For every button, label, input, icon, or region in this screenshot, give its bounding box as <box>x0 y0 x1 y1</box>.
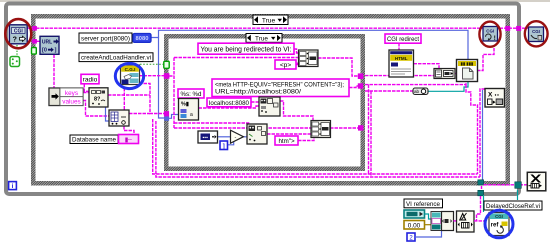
tunnel pink on case2 right y127 <box>358 125 363 130</box>
red circle around CGI release <box>525 21 548 46</box>
wire pink bus y128 left <box>174 127 311 129</box>
Database name label <box>70 135 118 144</box>
htm quote label <box>275 136 298 145</box>
unbundle by name node <box>49 88 83 106</box>
wire pink values out <box>83 101 109 117</box>
wire teal vi ref to open node <box>425 214 432 219</box>
tunnel pink on case2 left y113 <box>164 111 169 116</box>
wire pink keys out <box>83 92 89 94</box>
wire blue 2 const to open node <box>415 231 442 238</box>
case2 selector label <box>246 34 282 43</box>
radio label <box>81 74 99 84</box>
wire pink CGI to URL <box>27 40 40 42</box>
svg-text:server port(8080): server port(8080) <box>81 36 130 43</box>
svg-text:C.G.I: C.G.I <box>125 67 136 72</box>
tunnel teal on case1 bottom <box>478 180 484 185</box>
svg-text:%▮: %▮ <box>181 102 189 108</box>
wire pink left bypass vertical 2 <box>156 121 480 177</box>
numeric constant 8080 <box>133 34 151 43</box>
loop iteration terminal <box>9 182 17 191</box>
case1 selector label <box>253 15 288 25</box>
svg-text:keys: keys <box>65 90 78 97</box>
VI reference label <box>404 199 443 208</box>
wire pink tunnel90 east to abc node <box>365 90 413 92</box>
svg-text:!: ! <box>494 36 496 42</box>
case structure 2 right border <box>361 34 366 171</box>
build path node <box>434 69 455 79</box>
tunnel pink on case2 right y86 <box>358 83 363 88</box>
svg-text:True: True <box>255 35 268 42</box>
svg-text:<p>: <p> <box>280 62 292 69</box>
tunnel pink on case1 left y28 <box>32 26 37 31</box>
svg-text:htm">: htm"> <box>278 138 295 145</box>
wire blue brace const to triangle <box>227 141 234 145</box>
wire pink db right out <box>129 113 150 115</box>
wire pink meta out to tunnel <box>349 86 361 88</box>
tunnel pink on case1 left y41 <box>32 39 37 44</box>
wire teal abc out to write icon bottom <box>428 82 468 92</box>
comparison triangle node <box>231 130 244 143</box>
wire green error to case2 tunnel <box>140 63 164 65</box>
wire pink html icon out to buildpath node <box>414 64 440 69</box>
while loop border <box>6 4 519 195</box>
wire pink localhost label to iconA <box>251 101 259 103</box>
svg-text:URL: URL <box>42 40 52 46</box>
string subvi icon B <box>247 124 267 144</box>
createAndLoadHandler label <box>79 53 153 62</box>
wait ms node <box>457 211 475 232</box>
case structure 1 top border <box>31 14 510 19</box>
tunnel pink on case2 right y76 <box>358 73 364 79</box>
svg-text:URL=http://localhost:8080/: URL=http://localhost:8080/ <box>215 89 301 96</box>
string to path node <box>413 88 428 95</box>
wire pink wait to delayed close <box>474 220 485 222</box>
open vi reference node <box>442 212 454 231</box>
DelayedCloseRef vi icon <box>489 213 509 236</box>
svg-text:CGI: CGI <box>486 29 494 34</box>
wire pink bus y123 to iconB <box>174 123 249 124</box>
case structure 2 left border <box>164 34 169 171</box>
wire blue into format node <box>169 115 179 119</box>
DelayedCloseRef label <box>484 201 542 210</box>
blue brace constant <box>220 141 228 150</box>
localhost 8080 label <box>207 98 251 107</box>
svg-text:▮▮ ▮▮▮: ▮▮ ▮▮▮ <box>461 61 474 66</box>
svg-text:DelayedCloseRef.vi: DelayedCloseRef.vi <box>486 203 540 210</box>
tunnel teal on loop bottom <box>478 190 484 196</box>
wire pink db down to xxx const <box>124 126 134 135</box>
svg-text:[0: [0 <box>42 48 47 54</box>
tunnel pink on loop right y28 <box>516 26 521 31</box>
wire pink vi icon down to db <box>123 88 125 110</box>
CGI release icon <box>529 27 544 42</box>
server port label <box>79 33 132 43</box>
svg-text:?: ? <box>13 37 17 44</box>
p tag label <box>275 60 296 69</box>
close file icon C <box>485 89 505 108</box>
tunnel blue on case2 left <box>164 116 169 121</box>
html file icon <box>389 50 414 77</box>
svg-text:CGI: CGI <box>495 214 503 219</box>
wire blue 8080 const down to db tunnel <box>151 38 165 119</box>
numeric constant 0.00 <box>404 221 425 230</box>
wire pink bus y127 right <box>330 127 361 129</box>
wire blue bus y30 <box>159 30 469 60</box>
svg-text:ab: ab <box>414 89 420 94</box>
red circle around CGI write <box>479 22 500 47</box>
wire pink bypass down x368 <box>368 85 370 174</box>
svg-text:▪▪▪: ▪▪▪ <box>203 135 209 141</box>
svg-text:0.00: 0.00 <box>408 222 421 229</box>
format string label <box>178 89 204 98</box>
wire pink writefile out up to cgi write icon <box>477 48 494 71</box>
svg-text:%s: %d: %s: %d <box>181 91 203 98</box>
wire pink open node to wait <box>454 220 457 222</box>
wire pink to X icon <box>484 184 528 186</box>
open vi reference node stack <box>431 212 442 231</box>
wire pink down to wait row <box>477 196 481 221</box>
dark string constant G1 <box>198 131 218 143</box>
svg-text:-: - <box>235 135 237 141</box>
wire pink radio down <box>84 84 89 91</box>
wire olive 0.00 to open node <box>425 224 432 226</box>
string subvi icon A <box>259 97 280 116</box>
concatenate strings node 1 <box>299 50 319 67</box>
svg-text:localhost:8080: localhost:8080 <box>209 100 249 107</box>
tunnel pink on case1 right y28 <box>505 26 510 31</box>
you are being redirected label <box>198 43 294 54</box>
red circle top-left <box>5 19 31 48</box>
wire blue iconC down <box>482 90 484 180</box>
wire pink tunnel76 into interior <box>169 75 174 77</box>
case structure 1 left border <box>31 14 36 186</box>
numeric constant 2 <box>407 233 415 241</box>
svg-text:createAndLoadHandler.vi: createAndLoadHandler.vi <box>81 55 151 62</box>
database subvi icon <box>109 110 129 126</box>
blue circle around DelayedCloseRef <box>485 210 513 238</box>
svg-text:CGI redirect: CGI redirect <box>387 36 419 43</box>
wire pink youare label to concat <box>294 49 299 53</box>
tunnel green on case1 left <box>32 48 37 55</box>
CGI read icon top-left <box>9 25 27 44</box>
wire pink F1 out y108 <box>199 106 260 108</box>
svg-text:CGI: CGI <box>532 29 540 34</box>
meta refresh string constant <box>212 79 349 97</box>
concatenate strings node 2 <box>311 121 331 138</box>
svg-text:VI reference: VI reference <box>406 201 440 208</box>
svg-text:X: X <box>488 92 493 99</box>
window top strip <box>0 0 550 2</box>
wire pink main bus y28 <box>27 27 528 29</box>
svg-text:8?: 8? <box>94 97 101 103</box>
VI refnum terminal <box>404 210 425 218</box>
string constant xxx <box>119 135 139 144</box>
wire blue G1 to triangle <box>217 136 231 138</box>
wire pink createAndLoad to db chain <box>139 84 165 114</box>
URL to array icon <box>40 36 59 54</box>
close connection X icon <box>527 172 546 191</box>
tunnel teal on loop right border <box>515 182 522 189</box>
wire blue search down to db <box>106 107 110 121</box>
svg-text:▮··: ▮·· <box>125 137 132 143</box>
wire teal down to ref icon <box>483 195 485 212</box>
case structure 1 right border <box>506 14 511 186</box>
svg-text:You are being redirected to VI: You are being redirected to VI: <box>201 47 292 54</box>
CGI redirect label <box>385 34 421 43</box>
svg-text:HTML: HTML <box>395 56 408 61</box>
wire pink search out <box>108 94 150 96</box>
wire pink concat out to tunnel <box>318 58 361 76</box>
svg-text:True: True <box>262 17 276 24</box>
wire pink p label to concat <box>296 62 299 65</box>
wire pink concat input bus y57 <box>174 57 299 59</box>
svg-text:8080: 8080 <box>136 36 149 42</box>
wire blue triangle to iconB <box>244 136 248 138</box>
svg-text:a: a <box>190 112 193 118</box>
case structure 2 top border <box>164 34 365 39</box>
createAndLoadHandler vi icon <box>121 65 140 85</box>
wire pink iconC stub <box>480 89 485 177</box>
wire pink case2 interior vertical x174 <box>173 58 175 129</box>
CGI write reply icon <box>483 27 498 43</box>
svg-text:ref: ref <box>491 223 500 229</box>
dice icon <box>10 57 20 67</box>
wire green dice stub <box>16 45 18 55</box>
wire teal below tunnel <box>517 190 519 200</box>
wire pink below tunnel down to bottom row <box>481 186 483 189</box>
blue circle around vi icon <box>115 63 143 88</box>
svg-text:radio: radio <box>83 77 98 84</box>
wire pink branch down x371 <box>370 91 372 177</box>
wire pink URL down to unbundle <box>53 55 55 90</box>
svg-text:Database name: Database name <box>72 137 116 144</box>
svg-text:i: i <box>12 183 14 190</box>
case structure 2 bottom border <box>164 167 365 172</box>
wire pink createAndLoad out to case2 tunnel <box>139 75 164 77</box>
svg-text:CGI: CGI <box>14 29 24 35</box>
case structure 1 bottom border <box>31 181 510 186</box>
tunnel green on case2 left <box>164 61 169 68</box>
svg-text:values: values <box>62 99 80 106</box>
wire pink iconA out to concat2 <box>280 101 313 121</box>
tunnel pink on case2 left y76 <box>164 73 170 79</box>
wire pink write icon branch down <box>466 85 478 174</box>
write file icon <box>457 60 478 82</box>
wire pink iconB out <box>267 133 311 135</box>
svg-text:]: ] <box>223 144 225 150</box>
wire pink tunnel76 east to buildpath <box>365 75 434 77</box>
svg-text:]: ] <box>55 48 57 54</box>
wire pink htm label out <box>298 134 314 141</box>
wire pink left bypass vertical 1 <box>153 119 478 174</box>
format into string node F1 <box>179 99 199 121</box>
svg-text:<meta HTTP-EQUIV="REFRESH" CON: <meta HTTP-EQUIV="REFRESH" CONTENT="3); <box>215 81 344 88</box>
wire pink buildpath to writefile <box>455 73 457 75</box>
search keys subvi icon <box>89 88 108 107</box>
wire pink tunnel86 east to write icon bottom <box>365 82 466 85</box>
wire pink redirect label down to html icon <box>398 43 400 50</box>
